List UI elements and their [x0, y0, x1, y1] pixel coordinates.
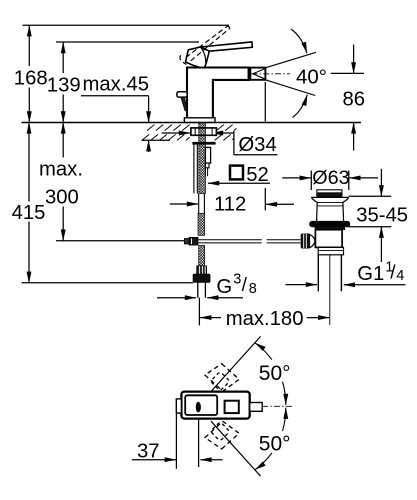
spray angle leader lower [293, 95, 308, 118]
braided hose lower [199, 246, 205, 267]
50 deg leader bottom-upper [283, 408, 286, 431]
pop-up housing lower pin [205, 168, 207, 176]
svg-text:37: 37 [137, 441, 160, 463]
dim 35-45 [349, 169, 392, 262]
svg-text:112: 112 [214, 193, 246, 215]
svg-text:40°: 40° [296, 66, 327, 89]
svg-text:139: 139 [47, 75, 81, 97]
bottom reference line (415 overall) [22, 282, 193, 284]
waste cap top [317, 190, 342, 193]
svg-text:86: 86 [343, 89, 366, 111]
faucet body L-shape [187, 68, 249, 119]
dim max300 vertical [62, 122, 64, 240]
deck hatch right row2 [215, 134, 234, 140]
svg-text:/: / [242, 275, 248, 296]
svg-text:415: 415 [12, 202, 46, 224]
aerator box [250, 68, 265, 80]
waste rod bulge [310, 235, 315, 248]
lever cap [186, 47, 210, 67]
dim 168 vertical [28, 25, 30, 122]
dim Ø34 arrows [162, 131, 278, 155]
waste tailpipe [318, 255, 341, 291]
svg-text:300: 300 [45, 186, 79, 208]
waste centerline [329, 247, 331, 325]
plan pivot dot [196, 402, 201, 413]
swivel diagonal lower [211, 421, 261, 476]
pop-up rod horizontal right part [267, 240, 301, 243]
plan right nub [250, 403, 263, 412]
50 deg leader bottom-lower [255, 453, 272, 470]
deck top line [22, 122, 362, 124]
base plate [184, 118, 215, 123]
deck hatch left row1 [147, 125, 190, 131]
rod end nipple [184, 239, 189, 244]
waste seal lip [315, 227, 345, 230]
dim 112 [170, 82, 294, 210]
dashed diamond bottom outer [205, 421, 239, 449]
waste seal [310, 221, 350, 227]
dim 86 vertical [331, 45, 364, 151]
waste coupling [318, 247, 343, 254]
clamp washer [193, 142, 215, 144]
50 deg leader top-upper [255, 343, 272, 360]
svg-text:35-45: 35-45 [356, 205, 408, 227]
pop-up housing step [205, 163, 209, 168]
dim 37 [132, 413, 223, 469]
dashed diamond top inner [210, 371, 230, 391]
waste flange seams [317, 203, 344, 206]
svg-text:max.180: max.180 [226, 308, 304, 330]
dim 139 vertical [62, 42, 64, 122]
svg-text:4: 4 [396, 268, 404, 284]
svg-text:52: 52 [246, 164, 269, 186]
threaded shank [199, 123, 206, 194]
waste rod knob [301, 234, 310, 248]
dim 415 vertical [28, 122, 30, 282]
aerator chevron [253, 69, 264, 79]
hose ribbed nut [197, 266, 207, 274]
waste flange [311, 197, 349, 221]
dim max45 leader [81, 96, 170, 152]
left bracket [177, 92, 187, 97]
G3/8 nut [193, 274, 210, 282]
spray line upper [265, 52, 316, 68]
dim max180 [199, 298, 329, 326]
pop-up rod verticals [194, 144, 197, 193]
dim G1 1/4 arrows [286, 284, 406, 286]
svg-text:Ø34: Ø34 [238, 134, 276, 156]
dim Ø63 [282, 171, 378, 191]
deck hatch right row1 [216, 125, 236, 131]
svg-text:168: 168 [14, 68, 48, 90]
50 deg leader top-lower [283, 382, 286, 405]
braided hose upper [198, 213, 205, 235]
deck hatch left row2 [142, 134, 190, 140]
svg-text:50°: 50° [259, 362, 291, 385]
plan spout square [225, 401, 239, 413]
label square52 symbol [230, 166, 243, 180]
reference line max.300 [56, 240, 184, 242]
svg-text:G1: G1 [357, 263, 384, 285]
plan body [181, 392, 249, 419]
plan left tab [176, 399, 181, 413]
lever grip [200, 42, 252, 51]
waste cap dark band [317, 193, 343, 197]
svg-text:G: G [216, 276, 232, 298]
pop-up rod horizontal double line [198, 240, 262, 243]
left bracket wedge [181, 98, 187, 111]
svg-text:50°: 50° [259, 432, 291, 455]
svg-text:max.45: max.45 [83, 73, 150, 95]
reference line (spout height 139) [56, 41, 199, 43]
lever cap seam [201, 48, 206, 63]
svg-text:Ø63: Ø63 [312, 167, 349, 189]
waste coupling line [318, 250, 343, 252]
spray angle leader upper [291, 29, 307, 53]
dim square52 leader arrow [208, 182, 270, 184]
rod end block [189, 238, 198, 245]
clamp nut [191, 128, 217, 135]
svg-text:max.: max. [39, 158, 83, 180]
hose tube upper [199, 194, 205, 214]
spray line lower [265, 80, 315, 96]
dashed diamond bottom inner [210, 422, 230, 442]
dashed diamond top outer [205, 364, 239, 392]
spout centerline dash-dot [252, 73, 291, 75]
dim G3/8 arrows [157, 297, 243, 299]
waste body box [315, 230, 342, 248]
plan lever [185, 395, 217, 415]
svg-text:3: 3 [233, 272, 241, 288]
swivel diagonal upper [211, 336, 261, 391]
svg-text:8: 8 [249, 281, 257, 297]
dashed raised lever [180, 26, 230, 64]
pop-up housing [205, 147, 210, 163]
supply tube [198, 282, 206, 298]
plan centerline dash-dot [262, 405, 293, 407]
top reference line (lever max height) [23, 24, 230, 26]
